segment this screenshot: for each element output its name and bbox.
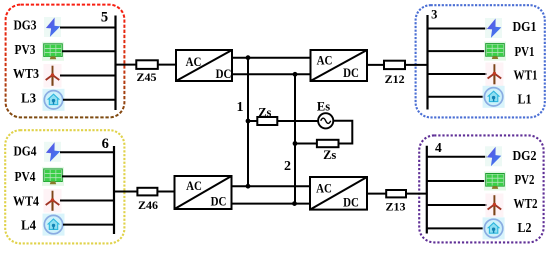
svg-text:DC: DC	[211, 195, 227, 209]
wire DG4 to bus 6	[60, 151, 115, 153]
svg-text:DG4: DG4	[14, 144, 37, 159]
converter U13 (AC/DC bottom-right)	[310, 177, 367, 210]
wire Z13 to bus 4	[406, 193, 427, 195]
wire bus 5 to Z45	[116, 64, 137, 66]
wind icon WT1	[485, 63, 503, 87]
svg-text:L2: L2	[518, 220, 532, 235]
bus 4 (MG2 bus bar)	[426, 146, 428, 234]
svg-text:WT4: WT4	[13, 193, 39, 208]
svg-text:1: 1	[237, 100, 244, 115]
generator icon DG1	[485, 18, 502, 38]
source Es	[318, 113, 333, 128]
svg-text:WT2: WT2	[514, 196, 538, 211]
junction dot rail1 top	[246, 55, 251, 60]
svg-text:PV2: PV2	[515, 172, 535, 187]
wind icon WT3	[44, 64, 62, 88]
load icon L3	[43, 89, 65, 111]
wire DG3 to bus 5	[60, 27, 116, 29]
wire U45 to U12 top (DC+)	[232, 57, 311, 59]
junction dot rail2 Zs tap	[293, 141, 298, 146]
wire WT4 to bus 6	[60, 200, 115, 202]
wire PV4 to bus 6	[62, 175, 115, 177]
load icon L4	[43, 214, 65, 236]
wire bus 6 to Z46	[114, 191, 137, 193]
svg-text:AC: AC	[186, 179, 202, 193]
wire PV3 to bus 5	[62, 50, 116, 52]
svg-text:Zs: Zs	[323, 148, 336, 162]
svg-text:4: 4	[435, 140, 442, 155]
svg-text:Zs: Zs	[258, 106, 271, 120]
wire Z45 to converter U45	[158, 64, 176, 66]
wire bus 4 to WT2	[426, 204, 487, 206]
solar icon PV2	[484, 172, 506, 191]
converter U45 (AC/DC top-left)	[176, 50, 232, 81]
wire Es to Zs lower	[333, 121, 352, 144]
svg-text:L3: L3	[21, 91, 36, 106]
svg-text:AC: AC	[317, 54, 333, 68]
solar icon PV3	[42, 42, 64, 61]
svg-text:AC: AC	[186, 55, 202, 69]
resistor Z13	[386, 190, 406, 197]
wire U12 to Z12	[367, 64, 384, 66]
svg-text:DG3: DG3	[14, 18, 37, 33]
svg-text:PV3: PV3	[15, 42, 36, 57]
wire U46 to U13 top	[232, 185, 311, 187]
wind icon WT2	[485, 194, 503, 218]
svg-text:6: 6	[102, 136, 109, 152]
wire Z46 to converter U46	[157, 191, 174, 193]
wire rail1 to Zs upper	[248, 120, 319, 122]
svg-text:Z13: Z13	[385, 200, 405, 214]
wire WT3 to bus 5	[60, 75, 116, 77]
svg-text:DG2: DG2	[513, 148, 537, 163]
resistor Z45	[136, 60, 158, 69]
resistor Zs lower	[317, 140, 339, 147]
svg-text:Z45: Z45	[136, 70, 156, 84]
solar icon PV1	[484, 42, 506, 61]
wire bus 3 to L1	[427, 96, 485, 98]
solar icon PV4	[42, 167, 64, 186]
svg-text:DC: DC	[216, 67, 232, 81]
wire bus 4 to DG2	[426, 156, 487, 158]
wire L4 to bus 6	[63, 224, 115, 226]
wire U46 to U13 bottom	[232, 203, 311, 205]
svg-text:Es: Es	[317, 100, 330, 114]
svg-text:PV1: PV1	[515, 44, 535, 59]
wire bus 4 to PV2	[426, 180, 486, 182]
bus 5 (MG3 bus bar)	[114, 16, 116, 111]
svg-text:L4: L4	[21, 218, 36, 233]
wire bus 4 to L2	[426, 227, 485, 229]
svg-text:DC: DC	[343, 66, 359, 80]
wire Z12 to bus 3	[405, 64, 428, 66]
wire U13 to Z13	[367, 193, 386, 195]
microgrid box MG4 (yellow dotted)	[5, 130, 124, 243]
svg-text:WT3: WT3	[13, 66, 39, 81]
bus 6 (MG4 bus bar)	[113, 146, 115, 234]
junction dot rail2 top	[293, 72, 298, 77]
load icon L2	[483, 217, 505, 239]
wire Zs lower to rail2	[295, 143, 317, 145]
svg-text:L1: L1	[518, 92, 532, 107]
junction dot rail1 bottom	[246, 184, 251, 189]
svg-text:DG1: DG1	[513, 19, 537, 34]
wire U45 to U12 bottom (DC-)	[232, 73, 311, 75]
converter U12 (AC/DC top-right)	[311, 50, 368, 81]
wire bus 3 to WT1	[427, 73, 487, 75]
resistor Z12	[384, 61, 405, 69]
converter U46 (AC/DC bottom-left)	[175, 176, 232, 209]
svg-text:Z46: Z46	[138, 198, 158, 212]
junction dot rail2 bottom	[292, 201, 297, 206]
wire bus 3 to DG1	[427, 28, 487, 30]
generator icon DG2	[485, 146, 502, 166]
svg-text:DC: DC	[343, 196, 359, 210]
generator icon DG4	[44, 142, 61, 162]
bus 3 (MG1 bus bar)	[426, 15, 428, 110]
svg-text:2: 2	[284, 159, 291, 174]
svg-text:Z12: Z12	[385, 72, 405, 86]
wire bus 3 to PV1	[427, 50, 486, 52]
svg-text:AC: AC	[316, 182, 332, 196]
resistor Zs upper	[257, 117, 277, 125]
node 1 vertical rail	[247, 58, 249, 187]
load icon L1	[483, 86, 505, 108]
wind icon WT4	[44, 189, 62, 213]
generator icon DG3	[44, 17, 61, 37]
wire L3 to bus 5	[63, 99, 116, 101]
svg-text:WT1: WT1	[514, 67, 538, 82]
microgrid box MG2 (purple dotted)	[419, 135, 543, 242]
resistor Z46	[137, 188, 157, 196]
svg-text:PV4: PV4	[15, 169, 36, 184]
microgrid box MG3 (red/brown dotted)	[6, 5, 125, 118]
svg-text:3: 3	[431, 7, 437, 21]
svg-text:5: 5	[101, 9, 108, 25]
microgrid box MG1 (blue dotted)	[416, 5, 545, 117]
node 2 vertical rail	[294, 74, 296, 203]
junction dot rail1 Zs tap	[246, 119, 251, 124]
